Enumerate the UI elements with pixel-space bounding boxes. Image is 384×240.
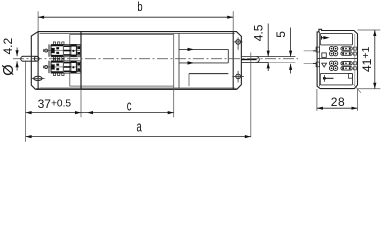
svg-text:4.5: 4.5 bbox=[251, 24, 265, 41]
svg-text:37+0.5: 37+0.5 bbox=[38, 97, 72, 111]
svg-text:41+1: 41+1 bbox=[360, 47, 374, 72]
svg-text:28: 28 bbox=[331, 95, 345, 109]
svg-text:b: b bbox=[137, 1, 142, 15]
svg-text:5: 5 bbox=[274, 31, 288, 38]
svg-text:a: a bbox=[137, 118, 142, 135]
svg-text:Ø: Ø bbox=[1, 65, 17, 76]
svg-text:4.2: 4.2 bbox=[1, 37, 15, 54]
svg-text:c: c bbox=[127, 97, 132, 114]
